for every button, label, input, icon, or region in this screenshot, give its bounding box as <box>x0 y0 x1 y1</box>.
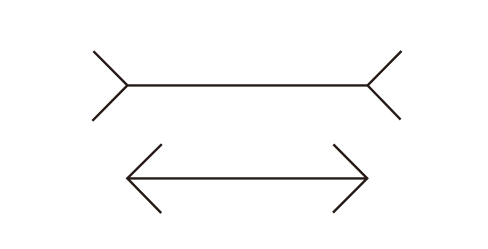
top-right lower fin <box>368 85 401 119</box>
bottom horizontal line (arrowheads-in figure) <box>127 177 367 179</box>
bottom-right arrowhead <box>333 144 367 212</box>
top horizontal line (fins-out figure) <box>127 84 367 86</box>
bottom-left arrowhead <box>127 144 162 213</box>
top-right upper fin <box>368 51 402 85</box>
top-left upper fin <box>93 51 127 85</box>
top-left lower fin <box>92 85 127 120</box>
